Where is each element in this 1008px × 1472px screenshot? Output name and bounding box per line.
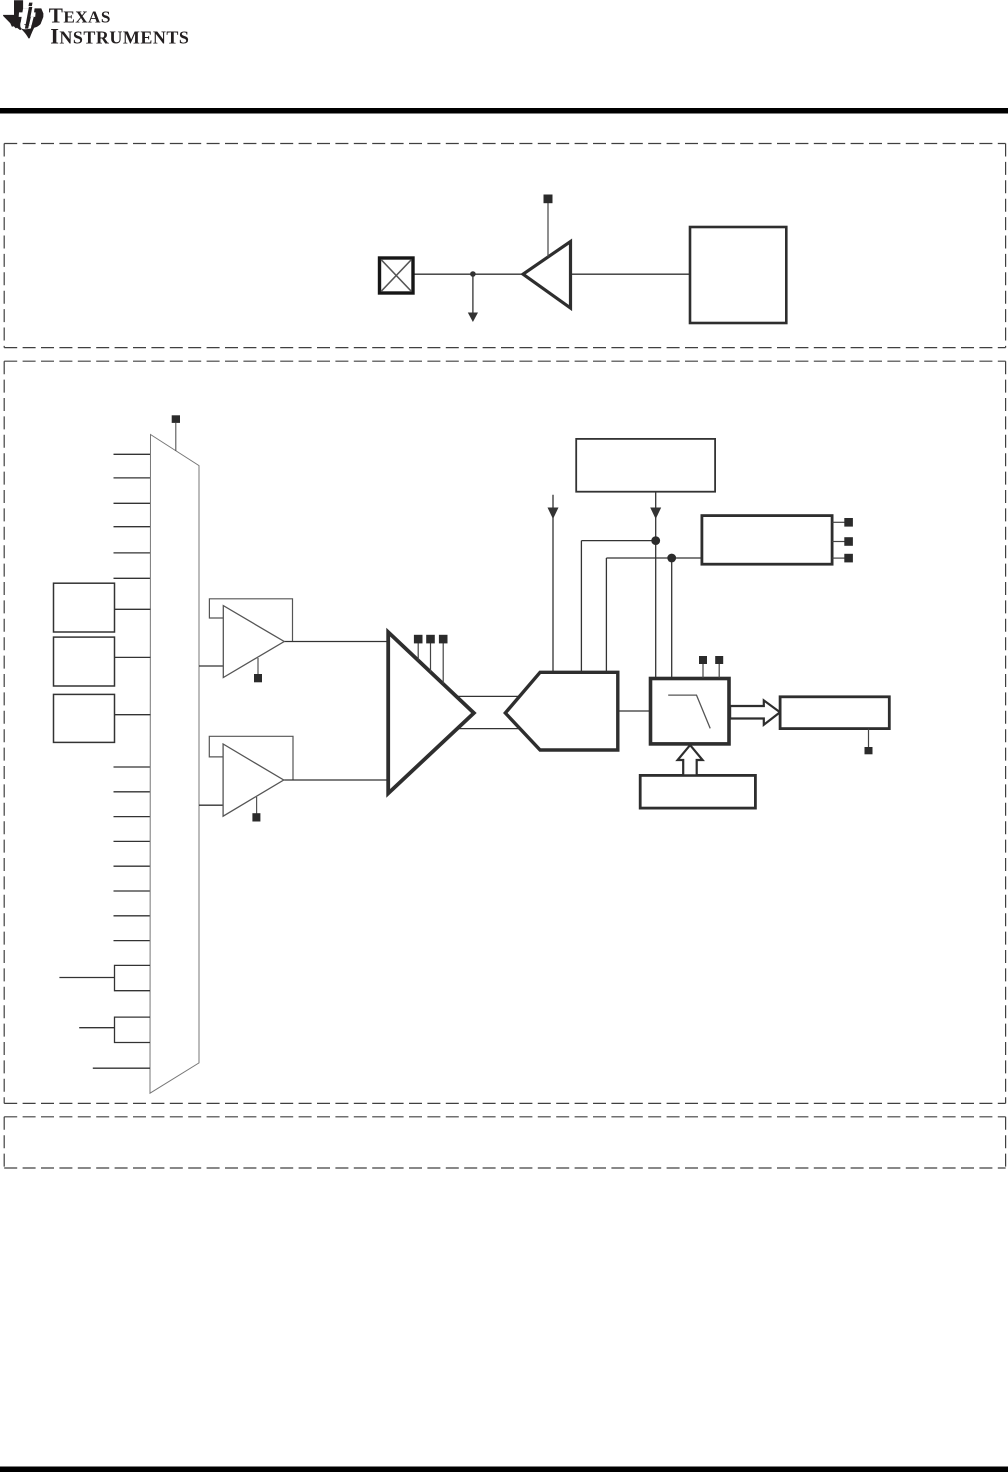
wire mux to op-amp A1 — [199, 665, 223, 667]
oscillator buffer U1 — [523, 242, 571, 309]
bracket input pair 2 — [115, 1017, 151, 1042]
wire into bracket 2 — [79, 1027, 114, 1029]
wire ADC to filter — [618, 710, 650, 712]
filter pin 1 — [699, 656, 707, 678]
oscillator block — [690, 227, 786, 323]
TI logo Texas-state emblem — [3, 0, 43, 38]
clock block (top) — [576, 439, 715, 492]
modulator control block (bottom) — [640, 775, 755, 808]
wire dot1 to ADC — [580, 541, 582, 673]
digital filter block — [651, 679, 730, 744]
header rule — [0, 108, 1008, 114]
footer rule — [0, 1467, 1008, 1472]
op-amp A1 feedback loop — [209, 599, 292, 642]
junction dot on oscillator wire — [470, 271, 476, 277]
wire block B to mux — [115, 656, 151, 658]
wire op-amp A1 output to PGA — [284, 641, 390, 643]
output register pin — [865, 729, 873, 755]
wire mux to op-amp A2 — [199, 804, 223, 806]
block arrow filter to output register — [730, 700, 780, 724]
left block A — [54, 583, 115, 632]
wire input channel 10 — [114, 840, 151, 842]
op-amp A2 — [223, 744, 284, 816]
wire op-amp A2 output to PGA — [284, 779, 390, 781]
op-amp A1 — [223, 606, 284, 678]
ground stub with arrow — [468, 274, 478, 322]
PGA pin 1 — [414, 635, 423, 661]
wire input channel 5 — [114, 552, 151, 554]
junction dot 2 — [667, 554, 676, 563]
control block pin 2 — [832, 537, 853, 546]
wire input channel 3 — [114, 502, 151, 504]
wire input channel 11 — [114, 865, 151, 867]
wire input channel 6 — [114, 577, 151, 579]
PGA pin 2 — [426, 635, 435, 672]
output register block — [780, 697, 889, 729]
control block pin 1 — [832, 518, 853, 527]
wire input channel 1 — [114, 453, 151, 455]
reference input line with arrow — [548, 495, 559, 673]
filter pin 2 — [715, 656, 723, 678]
wire dot2 to ADC — [605, 558, 607, 672]
svg-text:INSTRUMENTS: INSTRUMENTS — [50, 23, 189, 48]
clock line down with arrow — [650, 492, 661, 679]
left block C — [54, 694, 115, 742]
wire buffer output to block — [571, 273, 691, 275]
block arrow control to filter — [678, 745, 703, 775]
dashed frame: oscillator section — [4, 144, 1005, 348]
control block (right) — [702, 516, 832, 565]
wire block C to mux — [115, 714, 151, 716]
ADC hexagon — [505, 672, 618, 750]
op-amp A2 feedback loop — [209, 736, 293, 780]
junction dot 1 — [651, 536, 660, 545]
wire dot1 horizontal — [581, 540, 655, 542]
op-amp A1 power pin — [254, 658, 262, 682]
wire input channel 13 — [114, 915, 151, 917]
wires PGA to ADC — [455, 695, 521, 697]
mux power pin — [172, 415, 180, 451]
wire crystal to buffer — [413, 273, 523, 275]
buffer power pin — [544, 195, 553, 258]
input multiplexer — [150, 435, 199, 1094]
wire input channel 9 — [114, 816, 151, 818]
dashed frame: main block-diagram section — [4, 361, 1005, 1103]
op-amp A2 power pin — [252, 797, 260, 822]
dashed frame: bottom note section — [4, 1117, 1005, 1168]
wire dot2 horizontal to control block — [606, 557, 702, 559]
wire block A to mux — [115, 608, 151, 610]
wire input channel 12 — [114, 890, 151, 892]
PGA pin 3 — [439, 635, 448, 684]
bracket input pair 1 — [115, 965, 151, 990]
wire input channel 2 — [114, 477, 151, 479]
PGA triangle — [388, 632, 474, 793]
wire input channel 8 — [114, 791, 151, 793]
wire input channel 14 — [114, 940, 151, 942]
bottom mux input line — [93, 1067, 150, 1069]
wire dot2 down to filter — [671, 558, 673, 679]
filter response curve — [668, 695, 710, 728]
wire into bracket 1 — [59, 977, 114, 979]
crystal X1 — [380, 258, 414, 293]
wire input channel 4 — [114, 526, 151, 528]
left block B — [54, 637, 115, 686]
wire input channel 7 — [114, 766, 151, 768]
control block pin 3 — [832, 554, 853, 563]
